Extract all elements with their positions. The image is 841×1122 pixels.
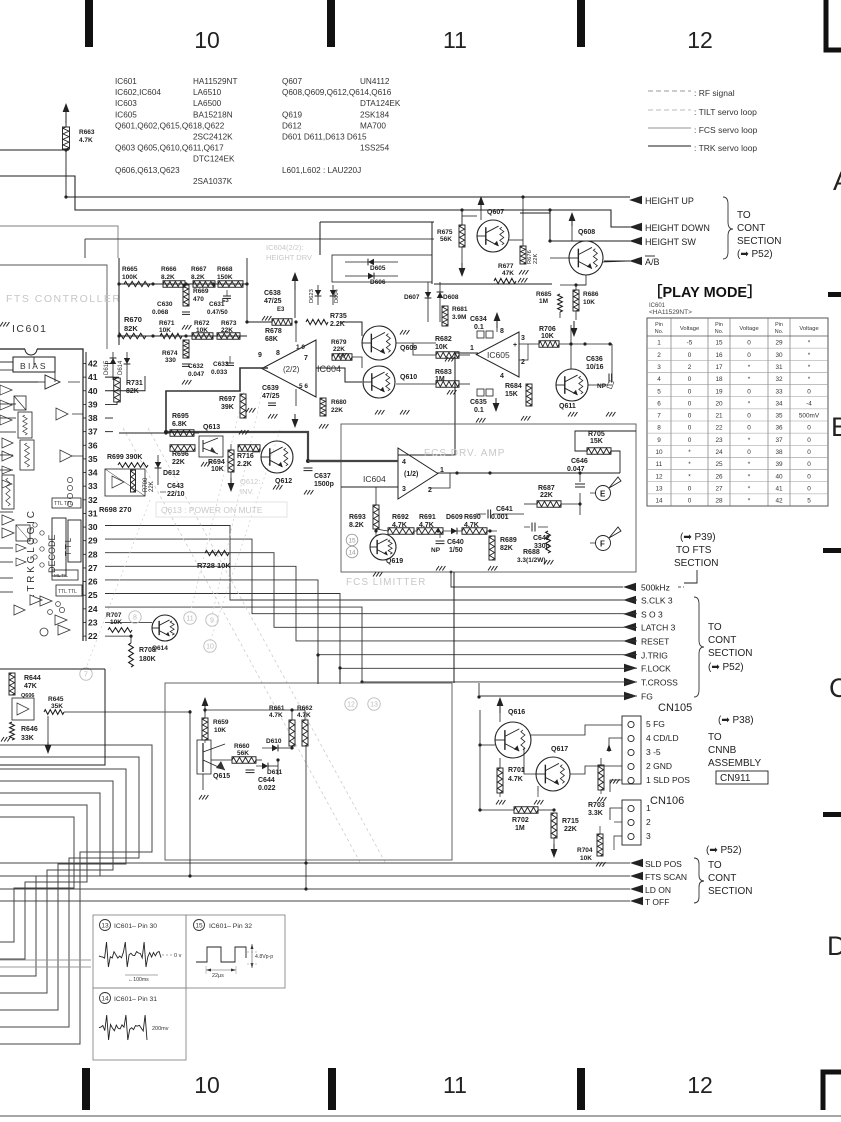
svg-text:4.7K: 4.7K: [508, 776, 523, 783]
svg-text:22K: 22K: [333, 346, 345, 353]
wire q613 down: [210, 448, 212, 457]
wire q617 base: [524, 748, 536, 774]
legend TILT line: [648, 109, 691, 111]
svg-text:5 6: 5 6: [299, 383, 308, 390]
svg-text:Q607: Q607: [282, 77, 302, 86]
svg-text:No.: No.: [655, 329, 663, 335]
svg-text:D601 D611,D613 D615: D601 D611,D613 D615: [282, 133, 367, 142]
svg-text:C637: C637: [314, 473, 331, 480]
svg-text:6: 6: [657, 400, 661, 407]
wire r682 chain: [396, 342, 436, 344]
wire trk thick: [166, 432, 341, 461]
svg-text:R707: R707: [106, 612, 122, 619]
svg-text:B: B: [831, 412, 841, 442]
dashed RF diagonal 2: [148, 428, 385, 862]
svg-text:SECTION: SECTION: [737, 236, 781, 247]
ground q616: [496, 800, 499, 805]
circled ref 11: [184, 612, 196, 624]
signal arrow LD ON: [630, 885, 643, 893]
transistor Q613 box: [199, 436, 223, 457]
svg-text:+: +: [513, 342, 517, 349]
svg-text:15: 15: [195, 922, 203, 929]
svg-text:33K: 33K: [21, 735, 34, 742]
wire q616 coll: [531, 725, 622, 735]
svg-text:DTA124EK: DTA124EK: [360, 99, 401, 108]
svg-text:1M: 1M: [539, 298, 548, 305]
svg-text:CONT: CONT: [708, 873, 736, 884]
wire q609 base: [340, 322, 362, 336]
svg-text:(1/2): (1/2): [404, 471, 418, 478]
svg-text:0: 0: [807, 461, 811, 468]
svg-text:R691: R691: [419, 514, 436, 521]
svg-text:0.047: 0.047: [567, 466, 585, 473]
ruler tick top-2: [327, 0, 335, 47]
svg-text:34: 34: [775, 400, 783, 407]
wire q616 net: [480, 744, 495, 746]
svg-text:11: 11: [656, 461, 663, 468]
wire 500kHz line: [451, 572, 623, 587]
svg-text:D609: D609: [446, 514, 463, 521]
wire d607 vertical: [427, 282, 429, 322]
svg-text:Q606,Q613,Q623: Q606,Q613,Q623: [115, 166, 180, 175]
svg-text:40: 40: [775, 473, 783, 480]
svg-text:R705: R705: [588, 431, 605, 438]
svg-text:39: 39: [88, 399, 98, 409]
svg-text:0: 0: [688, 413, 692, 420]
wire fts controller box: [0, 265, 107, 349]
wire pin22: [105, 636, 131, 643]
wire r687 vert: [579, 493, 581, 515]
svg-text:42: 42: [775, 498, 783, 505]
svg-text:SECTION: SECTION: [708, 648, 752, 659]
ground cn105 mid: [610, 779, 613, 784]
svg-text:D608: D608: [443, 294, 459, 301]
svg-text:(➡ P52): (➡ P52): [708, 662, 744, 673]
resistor R735: [306, 319, 328, 324]
signal arrow FTS SCAN: [630, 872, 643, 880]
svg-text:Voltage: Voltage: [680, 326, 699, 332]
wire cluster top: [119, 283, 247, 285]
box D605 D606: [332, 255, 432, 282]
svg-text:0 v: 0 v: [174, 953, 182, 959]
wire q617 em: [537, 786, 539, 791]
wf15 header: [194, 920, 205, 931]
svg-text:R692: R692: [392, 514, 409, 521]
svg-text:R690: R690: [464, 514, 481, 521]
svg-text:IC603: IC603: [115, 99, 137, 108]
svg-text:4 CD/LD: 4 CD/LD: [646, 733, 679, 743]
waveform box 14: [93, 988, 186, 1060]
svg-text:9: 9: [258, 352, 262, 359]
svg-text:100K: 100K: [122, 274, 138, 281]
resistor R676 rotated: [520, 246, 526, 264]
svg-text:R684: R684: [505, 383, 522, 390]
wire thick trk2: [308, 460, 341, 462]
svg-text:Q611: Q611: [559, 403, 576, 410]
svg-text:22/10: 22/10: [167, 491, 185, 498]
svg-text:D606: D606: [370, 279, 386, 286]
svg-text:: RF signal: : RF signal: [694, 88, 735, 98]
svg-text:Pin: Pin: [715, 322, 723, 328]
svg-text:C634: C634: [470, 316, 487, 323]
junction dot R663: [64, 148, 67, 151]
play mode table grid: [647, 318, 828, 506]
svg-text:CN911: CN911: [720, 773, 751, 784]
resistor R663: [63, 103, 70, 112]
svg-text:330: 330: [165, 357, 176, 364]
svg-text:39K: 39K: [221, 404, 234, 411]
svg-text:18: 18: [715, 376, 723, 383]
svg-text:D614: D614: [118, 360, 124, 375]
svg-text:8.2K: 8.2K: [161, 274, 175, 281]
svg-text:R708: R708: [139, 647, 156, 654]
wf13 wave: [99, 942, 161, 967]
svg-text:2 GND: 2 GND: [646, 761, 672, 771]
wf15 wave: [196, 947, 246, 962]
svg-text:0.001: 0.001: [491, 514, 509, 521]
svg-text:10K: 10K: [583, 299, 595, 306]
ground top-left: [0, 322, 3, 327]
svg-text:35: 35: [88, 454, 98, 464]
resistor R680: [320, 398, 326, 416]
svg-text:DECODE: DECODE: [47, 534, 57, 573]
svg-text:R735: R735: [330, 313, 347, 320]
svg-text:12: 12: [687, 1072, 713, 1098]
svg-text:Q619: Q619: [386, 558, 403, 565]
svg-text:R669: R669: [193, 288, 209, 295]
svg-text:Voltage: Voltage: [799, 326, 818, 332]
svg-text:15K: 15K: [505, 391, 518, 398]
svg-text:10K: 10K: [214, 727, 226, 734]
svg-text:J.TRIG: J.TRIG: [641, 651, 668, 661]
svg-text:24: 24: [88, 604, 98, 614]
svg-text:SECTION: SECTION: [708, 886, 752, 897]
svg-text:0: 0: [688, 352, 692, 359]
dashed diagonal to 7: [86, 500, 150, 668]
label TTL column rotated: [68, 520, 81, 562]
wire q616 down: [512, 758, 514, 768]
ruler tick bottom-3: [577, 1068, 585, 1110]
wire r703 top: [600, 758, 602, 765]
svg-text:IC601– Pin 31: IC601– Pin 31: [114, 996, 157, 1003]
svg-text:R675: R675: [437, 229, 453, 236]
svg-text:R667: R667: [191, 266, 207, 273]
svg-text:11: 11: [443, 27, 467, 53]
svg-text:8: 8: [276, 350, 280, 357]
svg-text:27: 27: [715, 485, 723, 492]
svg-text:Q619: Q619: [282, 110, 302, 119]
svg-text:: TILT servo loop: : TILT servo loop: [694, 107, 757, 117]
junction dots staircase: [316, 653, 319, 656]
svg-text:R686: R686: [583, 291, 599, 298]
svg-text:8.2K: 8.2K: [349, 522, 364, 529]
svg-text:TTL TTL: TTL TTL: [54, 501, 73, 507]
svg-text:30: 30: [88, 522, 98, 532]
wire q615 diodes: [256, 759, 262, 761]
svg-text:12: 12: [347, 702, 355, 709]
wire r686: [575, 311, 577, 320]
svg-text:1 SLD POS: 1 SLD POS: [646, 775, 690, 785]
ground q615: [199, 795, 202, 800]
svg-text:10K: 10K: [435, 344, 448, 351]
supply arrow down r686: [571, 328, 578, 337]
svg-text:R701: R701: [508, 767, 525, 774]
ruler corner bottom-right: [823, 1072, 841, 1110]
brace to cont section mid: [694, 597, 704, 697]
svg-text:Q613 : POWER ON MUTE: Q613 : POWER ON MUTE: [161, 505, 263, 515]
wire fcs row: [376, 529, 388, 531]
svg-text:17: 17: [715, 364, 723, 371]
connector CN105: [622, 716, 641, 784]
svg-text:Q607: Q607: [487, 209, 504, 216]
svg-text:27: 27: [88, 563, 98, 573]
svg-text:0.47/50: 0.47/50: [207, 309, 228, 316]
svg-text:T.CROSS: T.CROSS: [641, 678, 678, 688]
svg-text:R715: R715: [562, 818, 579, 825]
svg-text:1: 1: [657, 340, 661, 347]
svg-text:1: 1: [646, 803, 651, 813]
brace to cont section top: [723, 197, 733, 259]
wire q615 bus: [120, 691, 190, 693]
svg-text:10: 10: [206, 644, 214, 651]
wire opamp bottom: [295, 389, 297, 406]
wf15 scale: [206, 969, 236, 971]
svg-text:150K: 150K: [217, 274, 233, 281]
svg-text:R699 390K: R699 390K: [107, 454, 142, 461]
op-amp IC605: [476, 332, 519, 377]
svg-text:D610: D610: [266, 738, 282, 745]
svg-text:F.LOCK: F.LOCK: [641, 664, 671, 674]
svg-text:R697: R697: [219, 396, 236, 403]
svg-text:35: 35: [775, 413, 783, 420]
svg-text:SECTION: SECTION: [674, 558, 718, 569]
svg-text:LA6510: LA6510: [193, 88, 222, 97]
wf13 scale: [125, 974, 158, 976]
svg-text:4.8Vp-p: 4.8Vp-p: [255, 954, 273, 960]
svg-text:FG: FG: [641, 692, 653, 702]
wf14 header: [100, 993, 111, 1004]
svg-text:R677: R677: [498, 263, 514, 270]
svg-text:0: 0: [807, 449, 811, 456]
wire q610 base: [316, 368, 362, 382]
svg-text:2SK184: 2SK184: [360, 110, 390, 119]
circled ref 13: [368, 698, 380, 710]
svg-text:C641: C641: [496, 506, 513, 513]
svg-text:Q617: Q617: [551, 746, 568, 753]
svg-text:R663: R663: [79, 129, 95, 136]
ground q617: [534, 800, 537, 805]
terminal E: [596, 486, 611, 501]
wire q608 base: [550, 257, 569, 259]
svg-text:28: 28: [715, 498, 723, 505]
svg-text:C: C: [829, 673, 841, 703]
svg-text:38: 38: [88, 413, 98, 423]
svg-text:22K: 22K: [564, 826, 577, 833]
svg-text:LA6500: LA6500: [193, 99, 222, 108]
svg-text:D612: D612: [163, 470, 180, 477]
svg-text:(➡ P52): (➡ P52): [737, 249, 773, 260]
svg-text:21: 21: [715, 413, 723, 420]
diode D611: [262, 763, 268, 769]
svg-text:3.3(1/2W): 3.3(1/2W): [517, 557, 546, 564]
wire FTS SCAN bus: [0, 875, 630, 877]
svg-text:25: 25: [88, 590, 98, 600]
svg-text:IC605: IC605: [487, 350, 510, 360]
svg-text:D612: D612: [282, 121, 302, 130]
svg-text:1500p: 1500p: [314, 481, 334, 488]
supply arrow q616: [497, 697, 504, 706]
svg-text:Pin: Pin: [655, 322, 663, 328]
svg-text:23: 23: [88, 617, 98, 627]
svg-text:40: 40: [88, 386, 98, 396]
capacitor C637: [304, 467, 313, 469]
wire cascade bottom-left bundle: [0, 745, 152, 1044]
wire left edge 2: [0, 176, 630, 227]
svg-text:NP: NP: [597, 383, 607, 390]
svg-text:32: 32: [775, 376, 783, 383]
wire q607 emitter: [509, 239, 523, 241]
svg-text:(➡ P39): (➡ P39): [680, 532, 716, 543]
page bottom edge line: [0, 1115, 841, 1117]
svg-text:R674: R674: [162, 350, 178, 357]
svg-text:Q610: Q610: [400, 374, 417, 381]
svg-text:36: 36: [88, 440, 98, 450]
svg-text:C630: C630: [157, 301, 173, 308]
svg-text:20: 20: [715, 400, 723, 407]
svg-text:T T L: T T L: [64, 537, 73, 556]
svg-text:R660: R660: [234, 743, 250, 750]
svg-text:3: 3: [646, 831, 651, 841]
signal arrow HEIGHT SW: [629, 237, 642, 245]
svg-text:0.022: 0.022: [258, 785, 276, 792]
svg-text:33: 33: [88, 481, 98, 491]
supply arrow down opamp: [292, 419, 299, 428]
svg-text:IC604: IC604: [317, 364, 341, 374]
svg-text:1M: 1M: [515, 825, 525, 832]
svg-text:8: 8: [657, 425, 661, 432]
wire pins top: [105, 363, 113, 365]
svg-text:7: 7: [84, 672, 88, 679]
svg-text:22K: 22K: [149, 481, 155, 492]
wire cluster to opamp: [246, 258, 248, 322]
svg-text:0: 0: [688, 485, 692, 492]
wire opamp top input: [295, 322, 297, 342]
transistor Q614: [152, 615, 178, 641]
wire q611: [570, 325, 572, 344]
ruler tick bottom-1: [82, 1068, 90, 1110]
svg-text:4: 4: [402, 459, 406, 466]
svg-text:4.7K: 4.7K: [269, 712, 283, 719]
resistor R686: [573, 290, 579, 311]
svg-text:0: 0: [807, 485, 811, 492]
svg-text:No.: No.: [775, 329, 783, 335]
svg-text:15: 15: [348, 537, 356, 544]
svg-text:13: 13: [101, 922, 109, 929]
wire vert x306: [305, 746, 307, 889]
svg-text:R687: R687: [538, 485, 555, 492]
svg-text:1SS254: 1SS254: [360, 144, 390, 153]
svg-text:2: 2: [688, 364, 692, 371]
dashed RF diagonal 1: [123, 428, 360, 862]
svg-text:3: 3: [657, 364, 661, 371]
ground q609: [400, 330, 403, 335]
svg-text:3: 3: [521, 335, 525, 342]
svg-text:11: 11: [443, 1072, 467, 1098]
supply arrow q608: [569, 212, 576, 221]
svg-text:TO FTS: TO FTS: [676, 545, 712, 556]
svg-text:A/B: A/B: [645, 257, 660, 267]
svg-text:ASSEMBLY: ASSEMBLY: [708, 758, 761, 769]
svg-text:47K: 47K: [502, 270, 514, 277]
ruler tick bottom-2: [328, 1068, 336, 1110]
svg-text:IC604(2/2):: IC604(2/2):: [266, 243, 304, 252]
wire opamp out left: [166, 368, 268, 432]
svg-text:R681: R681: [452, 306, 468, 313]
svg-text:10K: 10K: [159, 327, 171, 334]
svg-text:14: 14: [101, 995, 109, 1002]
svg-text:0: 0: [688, 498, 692, 505]
svg-text:34: 34: [88, 468, 98, 478]
svg-text:Q612: Q612: [275, 478, 292, 485]
svg-text:4: 4: [500, 373, 504, 380]
wire LD ON bus: [0, 888, 630, 890]
svg-text:FTS SCAN: FTS SCAN: [645, 872, 687, 882]
svg-text:26: 26: [88, 577, 98, 587]
op-amp small near bias: [45, 375, 60, 389]
svg-text:Q612:: Q612:: [240, 477, 260, 486]
resistor R731: [114, 378, 121, 402]
svg-text:30: 30: [775, 352, 783, 359]
capacitor C635: [477, 389, 484, 396]
svg-text:12: 12: [655, 473, 663, 480]
svg-text:LATCH 3: LATCH 3: [641, 623, 676, 633]
svg-text:R704: R704: [577, 847, 593, 854]
resistor R689: [489, 536, 495, 560]
svg-text:R670: R670: [124, 315, 142, 324]
wire d-box: [320, 221, 434, 223]
transistor Q616: [495, 722, 531, 758]
svg-text:Q603 Q605,Q610,Q611,Q617: Q603 Q605,Q610,Q611,Q617: [115, 144, 224, 153]
diode D606: [345, 275, 398, 277]
svg-text:9: 9: [657, 437, 661, 444]
transistor Q608: [569, 241, 603, 275]
svg-text:D623: D623: [309, 289, 315, 303]
svg-text:9: 9: [210, 618, 214, 625]
ghost label power on mute: [156, 502, 287, 517]
svg-text:R688: R688: [523, 549, 540, 556]
resistor R681: [442, 306, 448, 326]
wire to FTS tick: [684, 570, 697, 583]
svg-text:22K: 22K: [331, 407, 343, 414]
circled ref 8: [129, 611, 141, 623]
box q615: [165, 683, 452, 860]
wire T OFF bus: [0, 900, 630, 902]
svg-text:0.047: 0.047: [188, 371, 205, 378]
svg-text:4.7K: 4.7K: [297, 712, 311, 719]
ruler tick top-3: [577, 0, 585, 47]
diode D614: [126, 352, 128, 380]
svg-text:15: 15: [715, 340, 723, 347]
wire q615 h1: [205, 709, 292, 711]
wire q608 to sw: [520, 212, 550, 214]
resistor R674: [183, 340, 189, 358]
svg-text:5 FG: 5 FG: [646, 719, 665, 729]
transistor Q611: [556, 369, 588, 401]
svg-text:11: 11: [186, 616, 193, 623]
svg-text:22μs: 22μs: [212, 973, 224, 979]
svg-text:1: 1: [470, 345, 474, 352]
svg-text:10/16: 10/16: [586, 364, 604, 371]
